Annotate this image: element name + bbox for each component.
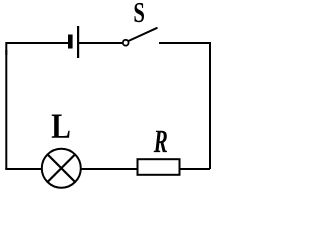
battery cell: short thick negative plate xyxy=(68,35,73,49)
wire switch to top-right corner xyxy=(159,43,210,55)
battery cell: long thin positive plate xyxy=(77,26,79,58)
switch S contact circle xyxy=(123,40,129,46)
wire left side xyxy=(5,50,7,169)
wire top-left (corner to battery) xyxy=(6,43,68,55)
resistor R body xyxy=(138,159,180,175)
wire right side xyxy=(209,50,211,169)
wire lamp to resistor xyxy=(81,168,137,170)
lamp L cross stroke 2 xyxy=(48,154,76,182)
wire bottom-right (corner to resistor) xyxy=(181,168,211,170)
lamp L bulb circle xyxy=(42,149,81,188)
label R xyxy=(154,131,167,152)
wire battery to switch xyxy=(79,42,122,44)
label L xyxy=(52,114,70,137)
lamp L cross stroke 1 xyxy=(48,154,76,182)
label S xyxy=(134,3,143,22)
wire bottom-left (corner to lamp) xyxy=(5,168,41,170)
switch S blade (open) xyxy=(128,28,157,41)
